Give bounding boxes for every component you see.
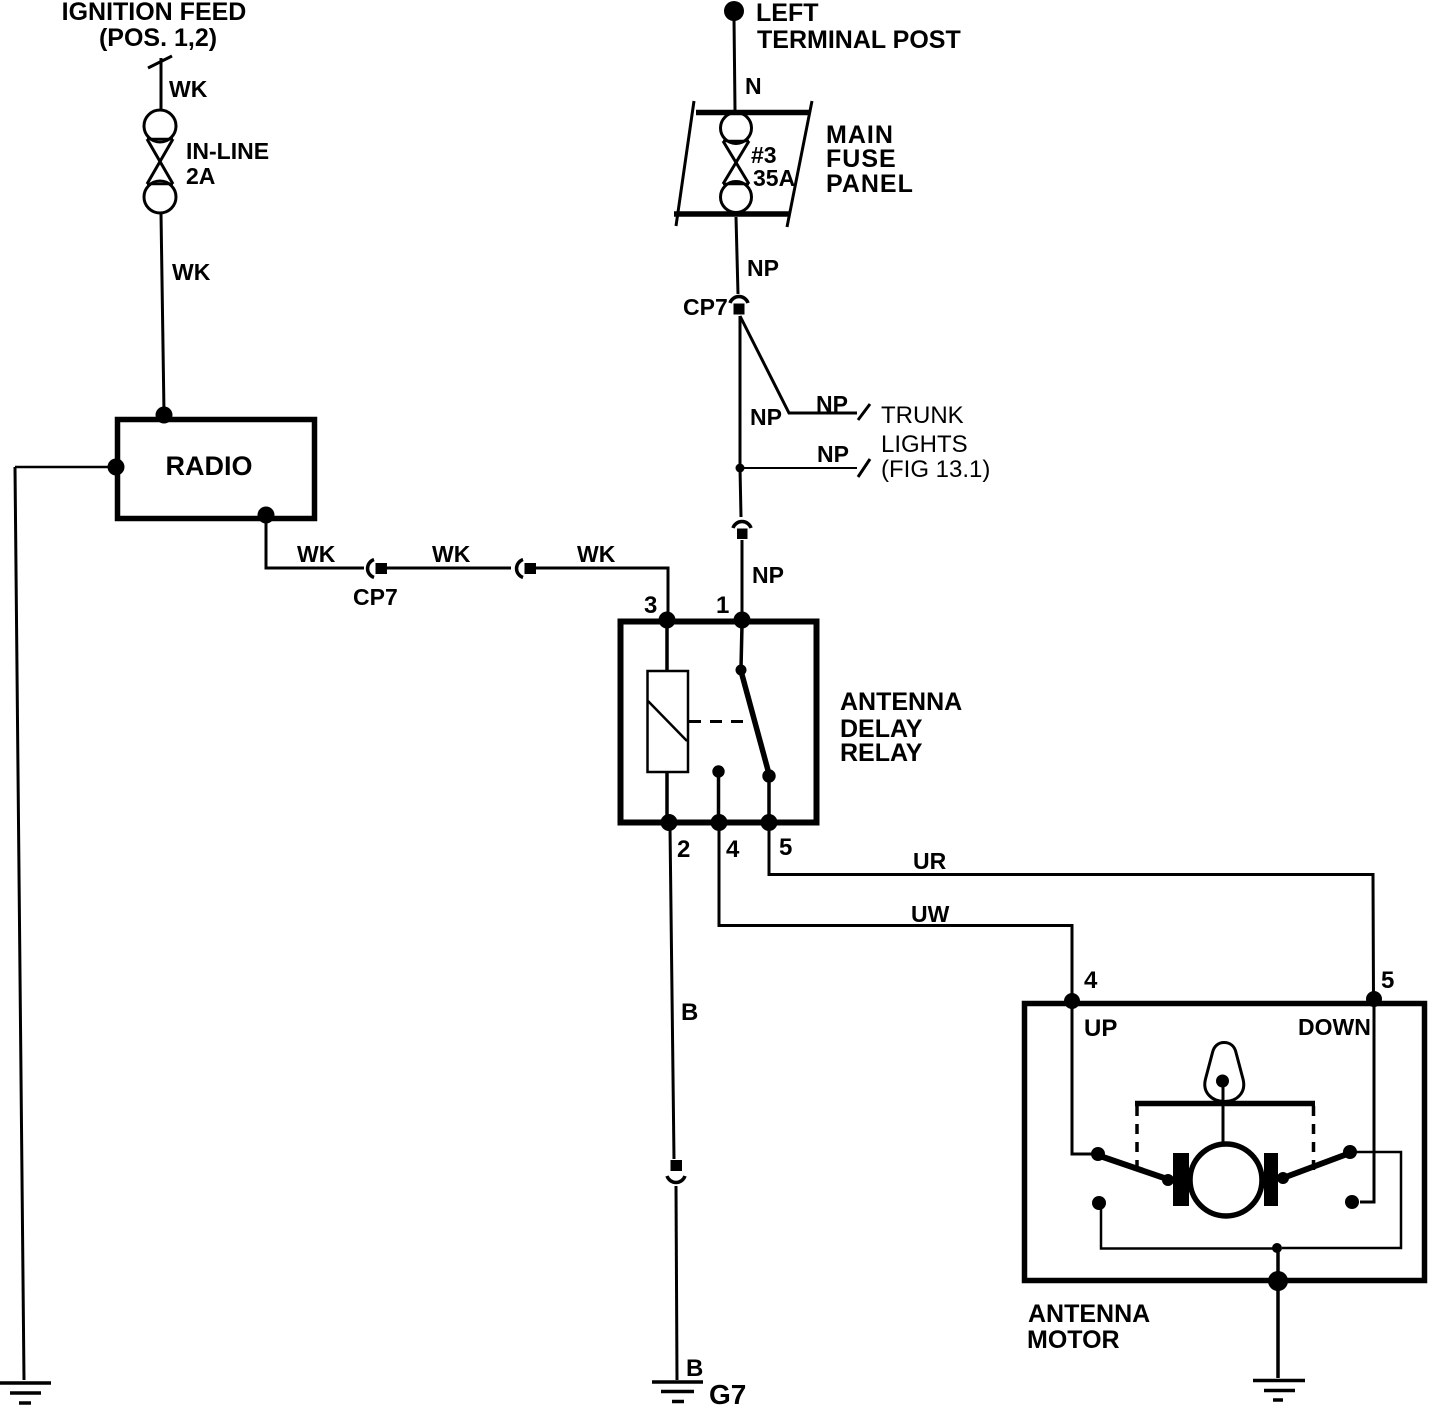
svg-text:IGNITION FEED: IGNITION FEED [62, 0, 247, 26]
up contact dot [1091, 1147, 1105, 1161]
down contact dot [1343, 1145, 1357, 1159]
svg-text:G7: G7 [709, 1379, 746, 1408]
motor pin 5 [1366, 991, 1382, 1007]
svg-text:MOTOR: MOTOR [1027, 1326, 1120, 1354]
svg-text:IN-LINE: IN-LINE [186, 138, 269, 164]
svg-text:5: 5 [1381, 967, 1394, 994]
wire label WK [432, 541, 471, 567]
wire NP fuse to CP7 connector [736, 217, 738, 294]
field bar [1135, 1101, 1315, 1107]
connector label CP7 [683, 294, 728, 320]
relay pin 4 [711, 814, 728, 831]
relay pin 3 [659, 612, 676, 629]
svg-text:NP: NP [752, 562, 784, 588]
motor pin 4 [1064, 993, 1080, 1009]
wire WK radio down then right to CP7 [266, 515, 364, 568]
dashed link left [1135, 1106, 1139, 1171]
wire WK fuse to radio [161, 213, 164, 413]
svg-text:PANEL: PANEL [826, 170, 914, 198]
node motor common junction [1272, 1243, 1282, 1253]
wire NP trunk-lights branch (lower) [740, 467, 857, 469]
main fuse panel label [826, 121, 914, 198]
svg-text:(FIG 13.1): (FIG 13.1) [881, 456, 990, 483]
wire label WK [297, 541, 336, 567]
relay pin 2 [661, 814, 678, 831]
wire WK ignition feed to in-line fuse [160, 58, 163, 110]
wire left ground run (vertical) [15, 467, 24, 1380]
relay switch contact dot [762, 769, 775, 782]
svg-text:LEFT: LEFT [756, 0, 819, 27]
antenna delay relay box [621, 622, 817, 823]
wire NP connector to relay pin 1 [741, 540, 744, 616]
up throw dot [1092, 1196, 1106, 1210]
fuse value labels [751, 142, 795, 191]
wire NP main vertical to tap [739, 316, 742, 466]
pin label 4 [1084, 967, 1098, 994]
wire NP trunk-lights branch (diagonal) [740, 316, 857, 413]
fuse #3 35A [721, 113, 752, 213]
wire NP tap to connector [740, 468, 741, 517]
down contact arm [1283, 1153, 1350, 1178]
wire pin5 to down throw [1360, 1005, 1374, 1202]
antenna motor label [1027, 1300, 1150, 1354]
down arm brush dot [1277, 1172, 1289, 1184]
svg-text:NP: NP [747, 255, 779, 281]
wire WK connector to connector [387, 567, 511, 570]
wire coil to pin2 [665, 772, 669, 819]
trunk lights label [881, 402, 990, 483]
wire label UR [913, 848, 947, 874]
ground label G7 [709, 1379, 746, 1408]
wire label NP (main vertical) [750, 404, 782, 430]
svg-text:B: B [686, 1355, 703, 1382]
wire bulb to armature [1222, 1085, 1225, 1142]
svg-text:NP: NP [750, 404, 782, 430]
svg-text:CP7: CP7 [683, 294, 728, 320]
svg-text:NP: NP [817, 441, 849, 467]
connector CP7 (main feed) [730, 297, 748, 315]
wire label NP [752, 562, 784, 588]
svg-text:WK: WK [172, 259, 211, 285]
off-page slash (trunk lights 1) [858, 404, 870, 420]
connector (in-line, second) [517, 560, 536, 578]
motor armature [1190, 1144, 1262, 1216]
wire UR relay pin5 to motor pin5 [769, 827, 1374, 999]
motor brush left [1173, 1153, 1189, 1206]
in-line fuse label [186, 138, 269, 189]
up arm brush dot [1162, 1174, 1174, 1186]
svg-text:TRUNK: TRUNK [881, 402, 964, 429]
svg-text:RELAY: RELAY [840, 739, 923, 767]
wire B connector to ground G7 [676, 1186, 677, 1380]
svg-text:4: 4 [726, 836, 740, 863]
wire label WK [172, 259, 211, 285]
svg-text:UR: UR [913, 848, 947, 874]
ground G7 [652, 1382, 703, 1402]
wire pin4 stub [717, 774, 721, 819]
wire common to case [1276, 1248, 1280, 1278]
wire label B [681, 999, 698, 1026]
pin label 4 [726, 836, 740, 863]
antenna delay relay label [840, 688, 962, 767]
wire label WK [577, 541, 616, 567]
wire WK connector to relay pin 3 [534, 568, 668, 616]
up contact arm [1100, 1156, 1170, 1180]
svg-text:TERMINAL POST: TERMINAL POST [757, 26, 961, 54]
wire up throw to common [1101, 1208, 1278, 1249]
relay switch pivot dot [736, 665, 747, 676]
svg-text:WK: WK [432, 541, 471, 567]
svg-text:ANTENNA: ANTENNA [840, 688, 962, 716]
svg-text:LIGHTS: LIGHTS [881, 431, 968, 458]
in-line fuse 2A [144, 110, 176, 213]
svg-text:2: 2 [677, 836, 690, 863]
wire N post to fuse panel [734, 18, 735, 110]
ground (bottom left) [0, 1383, 51, 1403]
relay pin 5 [761, 814, 778, 831]
ignition feed label [62, 0, 247, 52]
node motor case ground junction [1268, 1271, 1288, 1291]
off-page slash (trunk lights 2) [858, 459, 870, 477]
svg-text:NP: NP [816, 391, 848, 417]
wire pin3 to coil [665, 625, 669, 670]
radio label [166, 451, 253, 481]
node trunk lights tap [736, 464, 745, 473]
pin label 2 [677, 836, 690, 863]
svg-text:FUSE: FUSE [826, 145, 897, 173]
svg-text:DOWN: DOWN [1298, 1014, 1371, 1040]
wire label NP [817, 441, 849, 467]
relay pin 4 stub dot [712, 765, 724, 777]
wire contact to pin5 [767, 779, 771, 819]
svg-text:35A: 35A [753, 165, 795, 191]
main fuse panel [674, 101, 812, 227]
wire motor to ground [1276, 1285, 1280, 1378]
wire pin4 to up contact [1072, 1005, 1092, 1154]
down throw dot [1345, 1195, 1359, 1209]
radio box [118, 420, 315, 519]
svg-text:UW: UW [911, 901, 950, 927]
ground (motor) [1253, 1381, 1305, 1401]
thermal bulb [1205, 1043, 1244, 1102]
svg-text:RADIO: RADIO [166, 451, 253, 481]
ignition feed off-page slash [148, 56, 172, 68]
wire label N [745, 73, 762, 99]
dashed actuating link [689, 720, 750, 723]
wire B relay pin2 down [670, 827, 674, 1159]
relay switch arm [741, 671, 769, 774]
wire label B [686, 1355, 703, 1382]
pin label 3 [644, 592, 657, 619]
svg-text:WK: WK [577, 541, 616, 567]
svg-text:B: B [681, 999, 698, 1026]
node radio output junction [258, 507, 275, 524]
svg-text:UP: UP [1084, 1015, 1117, 1042]
thermal bulb contact dot [1216, 1075, 1229, 1088]
connector label CP7 [353, 584, 398, 610]
svg-text:1: 1 [716, 592, 729, 619]
pin label 5 [779, 834, 792, 861]
pin label 5 [1381, 967, 1394, 994]
relay pin 1 [734, 612, 751, 629]
svg-text:CP7: CP7 [353, 584, 398, 610]
relay coil [648, 671, 689, 772]
motor brush right [1264, 1153, 1278, 1206]
terminal post label [756, 0, 961, 54]
wire label UW [911, 901, 950, 927]
connector (ground wire) [667, 1160, 685, 1182]
connector (antenna feed) [733, 522, 751, 539]
battery left terminal post [724, 1, 744, 21]
wire radio to left ground (horizontal) [15, 466, 113, 469]
svg-text:WK: WK [169, 76, 208, 102]
antenna motor box [1025, 1004, 1425, 1281]
wire label WK [169, 76, 208, 102]
svg-text:N: N [745, 73, 762, 99]
svg-text:3: 3 [644, 592, 657, 619]
wire down contact to common [1282, 1152, 1401, 1248]
wire label NP [747, 255, 779, 281]
wire UW relay pin4 to motor pin4 [719, 827, 1072, 999]
wire label NP [816, 391, 848, 417]
pin label 1 [716, 592, 729, 619]
connector CP7 (radio feed) [368, 560, 387, 578]
svg-text:(POS. 1,2): (POS. 1,2) [99, 24, 217, 52]
svg-text:WK: WK [297, 541, 336, 567]
node radio ground junction [108, 459, 125, 476]
node radio supply junction [156, 407, 173, 424]
dashed link right [1312, 1106, 1316, 1171]
svg-text:ANTENNA: ANTENNA [1028, 1300, 1150, 1328]
relay switch: wire pin1 down [741, 625, 742, 668]
label DOWN [1298, 1014, 1371, 1040]
svg-text:4: 4 [1084, 967, 1098, 994]
svg-text:5: 5 [779, 834, 792, 861]
label UP [1084, 1015, 1117, 1042]
svg-text:2A: 2A [186, 163, 215, 189]
